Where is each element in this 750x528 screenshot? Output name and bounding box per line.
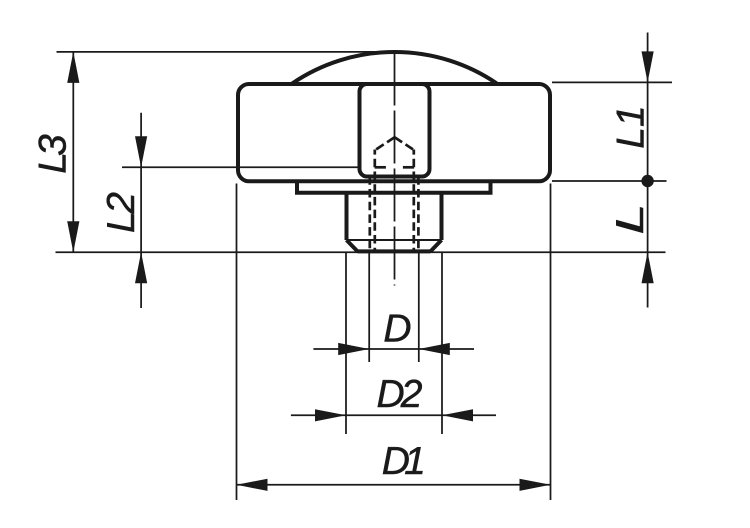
drill point chevron right (dashed) xyxy=(395,137,414,149)
bottom reference line (shank tip level) xyxy=(56,251,666,253)
wing body outline xyxy=(238,84,550,181)
svg-text:D2: D2 xyxy=(377,373,423,416)
svg-text:D: D xyxy=(383,308,411,351)
chamfer edge line xyxy=(347,239,442,241)
arrowhead L1 top (down) xyxy=(642,51,654,82)
extension line D1 left xyxy=(236,184,238,501)
L2 reference line xyxy=(122,166,359,168)
right reference line at wing bottom (L1/L boundary) xyxy=(552,180,667,182)
svg-text:L3: L3 xyxy=(32,134,75,174)
threaded bushing left side xyxy=(345,193,349,240)
svg-text:L1: L1 xyxy=(610,105,653,148)
arrowhead L3 top (up) xyxy=(67,52,79,83)
extension line D2 left xyxy=(345,252,347,434)
extension line D1 right xyxy=(550,184,552,501)
arrowhead D2 right (left-pointing) xyxy=(442,409,473,421)
chamfer left diagonal xyxy=(347,240,358,251)
dimension line L2 xyxy=(140,113,142,308)
extension line D left xyxy=(368,252,370,362)
dimension line D1 xyxy=(237,484,551,486)
extension line D right xyxy=(418,252,420,362)
arrowhead D2 left (right-pointing) xyxy=(315,409,346,421)
hidden pilot hole right (dashed) xyxy=(412,150,415,252)
dimension line D2 xyxy=(291,414,496,416)
arrowhead D1 left (left-pointing) xyxy=(237,479,268,491)
right reference line at wing top (L1 top) xyxy=(552,81,672,83)
svg-text:L: L xyxy=(609,204,652,235)
dimension line L1 / L xyxy=(647,33,649,308)
bushing bottom edge xyxy=(358,249,431,253)
arrowhead L bottom (up) xyxy=(642,252,654,283)
hidden thread major diameter left (dashed) xyxy=(368,176,371,251)
extension line D2 right xyxy=(441,252,443,434)
dimension line D xyxy=(313,348,474,350)
common point dot L1/L xyxy=(641,175,653,187)
thread end dash right xyxy=(403,166,414,169)
dome arc on top of knob xyxy=(292,52,497,84)
arrowhead D left (right-pointing) xyxy=(338,343,369,355)
flange collar outline xyxy=(297,181,491,193)
dimension line L3 xyxy=(72,52,74,252)
center axis line xyxy=(394,53,396,286)
threaded bushing right side xyxy=(440,193,444,240)
central hub outline xyxy=(360,84,430,177)
drill point chevron left (dashed) xyxy=(376,137,395,149)
arrowhead D1 right (right-pointing) xyxy=(520,479,551,491)
hidden thread major diameter right (dashed) xyxy=(417,176,420,251)
top reference line (L3 top) xyxy=(57,51,395,53)
arrowhead L3 bottom (down) xyxy=(67,221,79,252)
chamfer right diagonal xyxy=(431,240,442,251)
svg-text:D1: D1 xyxy=(382,440,426,483)
thread end dash left xyxy=(375,166,386,169)
hidden pilot hole left (dashed) xyxy=(373,150,376,252)
svg-text:L2: L2 xyxy=(100,192,143,233)
arrowhead L2 lower (up) xyxy=(135,252,147,283)
arrowhead D right (left-pointing) xyxy=(419,343,450,355)
arrowhead L2 upper (down) xyxy=(135,136,147,167)
